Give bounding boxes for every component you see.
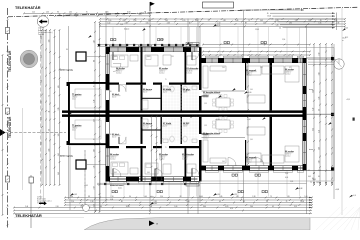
svg-text:60: 60 bbox=[93, 139, 95, 141]
svg-text:30: 30 bbox=[129, 196, 131, 198]
svg-text:5,40: 5,40 bbox=[148, 20, 151, 22]
svg-text:5,40: 5,40 bbox=[235, 20, 238, 22]
svg-text:+0,00: +0,00 bbox=[215, 119, 219, 121]
svg-text:1,95: 1,95 bbox=[165, 20, 168, 22]
svg-text:1,38: 1,38 bbox=[204, 103, 207, 105]
svg-text:88: 88 bbox=[274, 22, 276, 24]
svg-text:45: 45 bbox=[219, 201, 221, 203]
svg-text:kültéri egység: kültéri egység bbox=[60, 155, 74, 158]
svg-text:12,45: 12,45 bbox=[255, 29, 259, 31]
svg-text:3,25: 3,25 bbox=[294, 206, 297, 208]
svg-text:45: 45 bbox=[48, 111, 50, 113]
svg-text:-0,45: -0,45 bbox=[73, 194, 77, 196]
svg-text:TELEKHATÁR: TELEKHATÁR bbox=[7, 116, 12, 138]
svg-text:1,38: 1,38 bbox=[223, 20, 226, 22]
svg-text:1,38: 1,38 bbox=[204, 125, 207, 127]
svg-text:1,00: 1,00 bbox=[305, 196, 308, 198]
svg-text:5,40: 5,40 bbox=[312, 108, 314, 111]
svg-text:45: 45 bbox=[272, 206, 274, 208]
svg-text:3,25: 3,25 bbox=[139, 14, 142, 16]
svg-text:+0,00: +0,00 bbox=[247, 92, 251, 94]
svg-text:75: 75 bbox=[208, 20, 210, 22]
svg-text:+0,08: +0,08 bbox=[335, 189, 339, 191]
svg-text:1,00: 1,00 bbox=[58, 133, 60, 136]
svg-text:10,00: 10,00 bbox=[300, 201, 304, 203]
svg-text:5,40: 5,40 bbox=[93, 119, 95, 122]
svg-text:1,95: 1,95 bbox=[260, 67, 263, 69]
svg-text:07 fürdő: 07 fürdő bbox=[163, 88, 172, 91]
svg-text:3,25: 3,25 bbox=[318, 97, 320, 100]
svg-text:2,63: 2,63 bbox=[93, 186, 95, 189]
svg-text:75: 75 bbox=[48, 95, 50, 97]
svg-text:1,95: 1,95 bbox=[289, 22, 292, 24]
svg-text:2,63: 2,63 bbox=[308, 20, 311, 22]
svg-text:TELEKHATÁR: TELEKHATÁR bbox=[15, 213, 42, 218]
svg-text:3,60: 3,60 bbox=[203, 206, 206, 208]
svg-text:1,95: 1,95 bbox=[48, 39, 50, 42]
svg-text:90: 90 bbox=[66, 49, 68, 51]
svg-text:2,40: 2,40 bbox=[222, 161, 225, 163]
svg-text:±0,00: ±0,00 bbox=[193, 116, 197, 118]
svg-text:75: 75 bbox=[86, 12, 88, 14]
svg-text:3,60: 3,60 bbox=[147, 56, 150, 58]
svg-text:8,12: 8,12 bbox=[345, 37, 348, 39]
svg-text:1,95: 1,95 bbox=[318, 22, 321, 24]
svg-text:kültéri egység: kültéri egység bbox=[60, 69, 74, 72]
svg-text:+0,05: +0,05 bbox=[353, 195, 357, 197]
svg-text:1,38: 1,38 bbox=[252, 196, 255, 198]
svg-text:1,95: 1,95 bbox=[93, 165, 95, 168]
svg-text:2,63: 2,63 bbox=[260, 20, 263, 22]
svg-text:10,00: 10,00 bbox=[127, 12, 131, 14]
svg-text:2,10: 2,10 bbox=[32, 12, 35, 14]
svg-text:1,50: 1,50 bbox=[282, 39, 285, 41]
svg-text:1,00: 1,00 bbox=[174, 206, 177, 208]
svg-text:1,20: 1,20 bbox=[287, 196, 290, 198]
svg-text:+4,05: +4,05 bbox=[160, 39, 164, 41]
svg-text:-0,60: -0,60 bbox=[153, 203, 157, 205]
svg-text:5,40: 5,40 bbox=[144, 196, 147, 198]
svg-text:10,00: 10,00 bbox=[126, 206, 130, 208]
svg-text:88: 88 bbox=[245, 22, 247, 24]
svg-text:10,00: 10,00 bbox=[267, 16, 271, 18]
svg-text:09 kamra: 09 kamra bbox=[143, 122, 153, 125]
svg-text:1,00: 1,00 bbox=[318, 147, 320, 150]
svg-text:2,10: 2,10 bbox=[217, 22, 220, 24]
svg-text:04 szoba: 04 szoba bbox=[110, 153, 120, 156]
svg-text:2,40: 2,40 bbox=[285, 173, 288, 175]
svg-text:45: 45 bbox=[150, 206, 152, 208]
svg-text:1,20: 1,20 bbox=[122, 14, 125, 16]
svg-text:3,25: 3,25 bbox=[146, 22, 149, 24]
svg-text:60: 60 bbox=[100, 206, 102, 208]
svg-text:5,40: 5,40 bbox=[276, 24, 279, 26]
svg-text:60: 60 bbox=[189, 22, 191, 24]
svg-text:földszinti terasz: földszinti terasz bbox=[110, 184, 124, 187]
svg-text:2,63: 2,63 bbox=[312, 128, 314, 131]
svg-text:3,60: 3,60 bbox=[271, 19, 274, 21]
svg-text:2,40: 2,40 bbox=[70, 196, 73, 198]
svg-text:2,10: 2,10 bbox=[86, 14, 89, 16]
svg-text:45: 45 bbox=[266, 201, 268, 203]
svg-text:30: 30 bbox=[313, 173, 315, 175]
svg-text:-0,25: -0,25 bbox=[233, 194, 237, 196]
svg-text:2,63: 2,63 bbox=[154, 201, 157, 203]
svg-text:2,85: 2,85 bbox=[171, 56, 174, 58]
svg-text:88: 88 bbox=[88, 196, 90, 198]
svg-text:T1 garázs: T1 garázs bbox=[72, 124, 82, 127]
svg-text:3,25: 3,25 bbox=[334, 20, 337, 22]
svg-text:1,00: 1,00 bbox=[133, 20, 136, 22]
svg-text:+3,15: +3,15 bbox=[346, 99, 350, 101]
svg-text:6,55: 6,55 bbox=[58, 85, 60, 88]
svg-text:bejárat: bejárat bbox=[124, 28, 130, 31]
svg-text:TELEKHATÁR: TELEKHATÁR bbox=[15, 5, 41, 10]
svg-text:2,40: 2,40 bbox=[318, 72, 320, 75]
svg-text:4,05: 4,05 bbox=[225, 206, 228, 208]
svg-text:45: 45 bbox=[279, 27, 281, 29]
svg-text:88: 88 bbox=[121, 201, 123, 203]
svg-text:1,95: 1,95 bbox=[316, 182, 319, 184]
svg-text:75: 75 bbox=[165, 79, 167, 81]
svg-text:2,40: 2,40 bbox=[25, 206, 28, 208]
svg-text:30: 30 bbox=[318, 109, 320, 111]
svg-text:88: 88 bbox=[93, 60, 95, 62]
svg-text:2,63: 2,63 bbox=[167, 22, 170, 24]
svg-text:88: 88 bbox=[144, 12, 146, 14]
svg-text:kavics: kavics bbox=[118, 188, 122, 190]
svg-text:-0,02: -0,02 bbox=[247, 119, 251, 121]
svg-text:04 szoba: 04 szoba bbox=[116, 67, 126, 70]
svg-text:3,25: 3,25 bbox=[289, 67, 292, 69]
svg-text:1,95: 1,95 bbox=[260, 161, 263, 163]
svg-text:4,05: 4,05 bbox=[308, 176, 311, 178]
svg-text:5,40: 5,40 bbox=[250, 139, 253, 141]
svg-text:90: 90 bbox=[318, 176, 320, 178]
svg-text:60: 60 bbox=[48, 129, 50, 131]
svg-text:1,00: 1,00 bbox=[46, 12, 49, 14]
svg-text:1,95: 1,95 bbox=[236, 196, 239, 198]
svg-text:1,00: 1,00 bbox=[108, 20, 111, 22]
svg-text:1,20: 1,20 bbox=[290, 181, 293, 183]
svg-text:5,40: 5,40 bbox=[58, 172, 60, 175]
svg-text:+4,05: +4,05 bbox=[216, 25, 220, 27]
svg-text:07 fürdő: 07 fürdő bbox=[163, 122, 172, 125]
svg-text:2,40: 2,40 bbox=[250, 206, 253, 208]
svg-text:1,50: 1,50 bbox=[263, 22, 266, 24]
svg-text:-0,15: -0,15 bbox=[189, 43, 193, 45]
svg-text:2,40: 2,40 bbox=[222, 67, 225, 69]
svg-text:4,05: 4,05 bbox=[114, 172, 117, 174]
svg-text:-0,30: -0,30 bbox=[216, 194, 220, 196]
svg-text:2,85: 2,85 bbox=[58, 107, 60, 110]
svg-text:75: 75 bbox=[165, 147, 167, 149]
svg-text:T1 garázs: T1 garázs bbox=[72, 93, 82, 96]
svg-text:1,38: 1,38 bbox=[93, 40, 95, 43]
svg-text:45: 45 bbox=[320, 20, 322, 22]
svg-text:1,50: 1,50 bbox=[195, 20, 198, 22]
svg-text:90: 90 bbox=[57, 12, 59, 14]
svg-text:4,05: 4,05 bbox=[114, 56, 117, 58]
svg-text:5,40: 5,40 bbox=[93, 204, 95, 207]
svg-text:3,25: 3,25 bbox=[318, 130, 320, 133]
svg-text:2,10: 2,10 bbox=[160, 196, 163, 198]
svg-text:2,10: 2,10 bbox=[318, 53, 320, 56]
svg-text:5,40: 5,40 bbox=[106, 14, 109, 16]
svg-text:60: 60 bbox=[70, 14, 72, 16]
svg-text:02 konyha-étkező: 02 konyha-étkező bbox=[203, 132, 221, 135]
svg-text:+4,05: +4,05 bbox=[84, 185, 88, 187]
svg-text:4,05: 4,05 bbox=[285, 177, 288, 179]
svg-text:2,40: 2,40 bbox=[125, 22, 128, 24]
svg-text:88: 88 bbox=[180, 196, 182, 198]
svg-text:02 konyha-étkező: 02 konyha-étkező bbox=[203, 91, 221, 94]
svg-text:4,05: 4,05 bbox=[313, 179, 316, 181]
svg-text:1,20: 1,20 bbox=[182, 20, 185, 22]
svg-text:4,88: 4,88 bbox=[110, 199, 113, 201]
svg-text:1,50: 1,50 bbox=[69, 12, 72, 14]
svg-text:6,55: 6,55 bbox=[276, 20, 279, 22]
svg-text:09 kamra: 09 kamra bbox=[143, 88, 153, 91]
svg-text:75: 75 bbox=[270, 196, 272, 198]
svg-text:90: 90 bbox=[59, 14, 61, 16]
svg-text:+0,08: +0,08 bbox=[298, 188, 302, 190]
svg-text:1,00: 1,00 bbox=[318, 160, 320, 163]
svg-text:2,63: 2,63 bbox=[120, 24, 123, 26]
svg-text:2,10: 2,10 bbox=[71, 201, 74, 203]
svg-text:4,05: 4,05 bbox=[123, 20, 126, 22]
svg-text:fedés: fedés bbox=[150, 196, 154, 198]
svg-text:2,40: 2,40 bbox=[219, 196, 222, 198]
svg-text:1,38: 1,38 bbox=[90, 201, 93, 203]
svg-text:75: 75 bbox=[286, 201, 288, 203]
svg-text:1,95: 1,95 bbox=[295, 20, 298, 22]
svg-text:75: 75 bbox=[248, 20, 250, 22]
svg-text:88: 88 bbox=[338, 22, 340, 24]
svg-text:60: 60 bbox=[93, 86, 95, 88]
svg-text:1,38: 1,38 bbox=[93, 100, 95, 103]
svg-text:75: 75 bbox=[310, 182, 312, 184]
svg-text:5,40: 5,40 bbox=[250, 89, 253, 91]
svg-text:5,40: 5,40 bbox=[93, 149, 95, 152]
svg-text:2,10: 2,10 bbox=[56, 206, 59, 208]
svg-text:45: 45 bbox=[267, 13, 269, 15]
svg-text:38: 38 bbox=[156, 224, 158, 226]
svg-text:3,60: 3,60 bbox=[147, 172, 150, 174]
svg-text:1,00: 1,00 bbox=[107, 22, 110, 24]
svg-text:6,55: 6,55 bbox=[230, 208, 233, 210]
svg-text:4,05: 4,05 bbox=[48, 149, 50, 152]
svg-text:90: 90 bbox=[110, 134, 112, 136]
svg-text:90: 90 bbox=[110, 91, 112, 93]
svg-text:10,00: 10,00 bbox=[199, 196, 203, 198]
